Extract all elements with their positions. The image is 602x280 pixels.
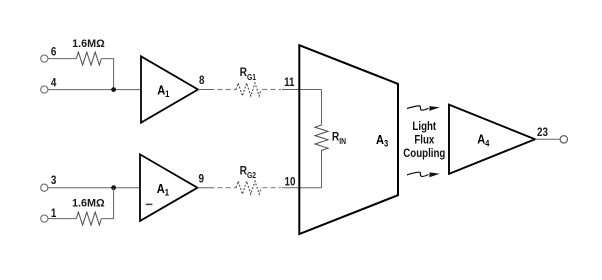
wire (dashed) — [262, 187, 281, 189]
svg-text:3: 3 — [51, 175, 57, 188]
label A1 (bottom) — [157, 181, 170, 198]
pin label 9 — [199, 173, 205, 186]
svg-text:1.6MΩ: 1.6MΩ — [72, 198, 105, 210]
wire — [321, 90, 323, 126]
pin label 1 — [51, 207, 57, 220]
svg-text:8: 8 — [199, 74, 205, 87]
svg-text:Coupling: Coupling — [403, 147, 445, 160]
pin label 23 — [537, 126, 548, 139]
resistor RG2 (dashed) — [236, 181, 261, 194]
resistor 1.6M (top) — [76, 52, 101, 65]
svg-text:11: 11 — [284, 76, 294, 89]
wire — [198, 89, 215, 91]
inverting input minus sign — [146, 203, 153, 205]
resistor RG1 (dashed) — [236, 83, 261, 96]
junction — [111, 185, 116, 190]
svg-text:23: 23 — [537, 126, 548, 139]
wire (dashed) — [218, 89, 237, 91]
svg-text:Light: Light — [412, 120, 436, 133]
wire — [48, 187, 140, 189]
junction — [111, 87, 116, 92]
value label RG2 — [240, 165, 256, 180]
svg-text:10: 10 — [284, 176, 295, 189]
value label RIN — [332, 131, 346, 146]
svg-text:1.6MΩ: 1.6MΩ — [72, 38, 105, 50]
terminal 1 — [41, 215, 48, 222]
terminal 6 — [41, 55, 48, 62]
pin label 10 — [284, 176, 295, 189]
pin label 11 — [284, 76, 294, 89]
light flux arrow (top) — [407, 106, 440, 111]
pin label 6 — [51, 46, 57, 59]
pin label 3 — [51, 175, 57, 188]
op-amp A1 (bottom) — [140, 154, 198, 221]
label Light Flux Coupling — [403, 120, 445, 160]
svg-text:6: 6 — [51, 46, 57, 59]
op-amp A4 — [449, 105, 535, 174]
label A1 (top) — [157, 82, 170, 99]
wire — [48, 89, 141, 91]
wire — [321, 153, 323, 188]
pin label 4 — [51, 77, 57, 90]
terminal 3 — [41, 184, 48, 191]
isolation stage A3 (trapezoid) — [299, 45, 398, 234]
svg-text:9: 9 — [199, 173, 205, 186]
wire (dashed) — [262, 89, 281, 91]
resistor RIN — [315, 125, 328, 153]
terminal 23 — [560, 136, 567, 143]
light flux arrow (bottom) — [407, 172, 440, 177]
value label RG1 — [240, 67, 256, 82]
wire — [48, 58, 76, 60]
resistor 1.6M (bottom) — [76, 212, 101, 225]
wire (dashed) — [218, 187, 237, 189]
wire — [198, 187, 215, 189]
wire — [48, 218, 76, 220]
wire — [282, 187, 322, 189]
terminal 4 — [41, 86, 48, 93]
svg-text:4: 4 — [51, 77, 57, 90]
label A4 — [477, 132, 490, 149]
wire — [101, 59, 113, 90]
wire — [282, 89, 322, 91]
wire — [535, 138, 560, 140]
wire — [101, 188, 113, 219]
op-amp A1 (top) — [141, 56, 198, 122]
label A3 — [376, 132, 389, 149]
svg-text:Flux: Flux — [414, 134, 434, 147]
pin label 8 — [199, 74, 205, 87]
